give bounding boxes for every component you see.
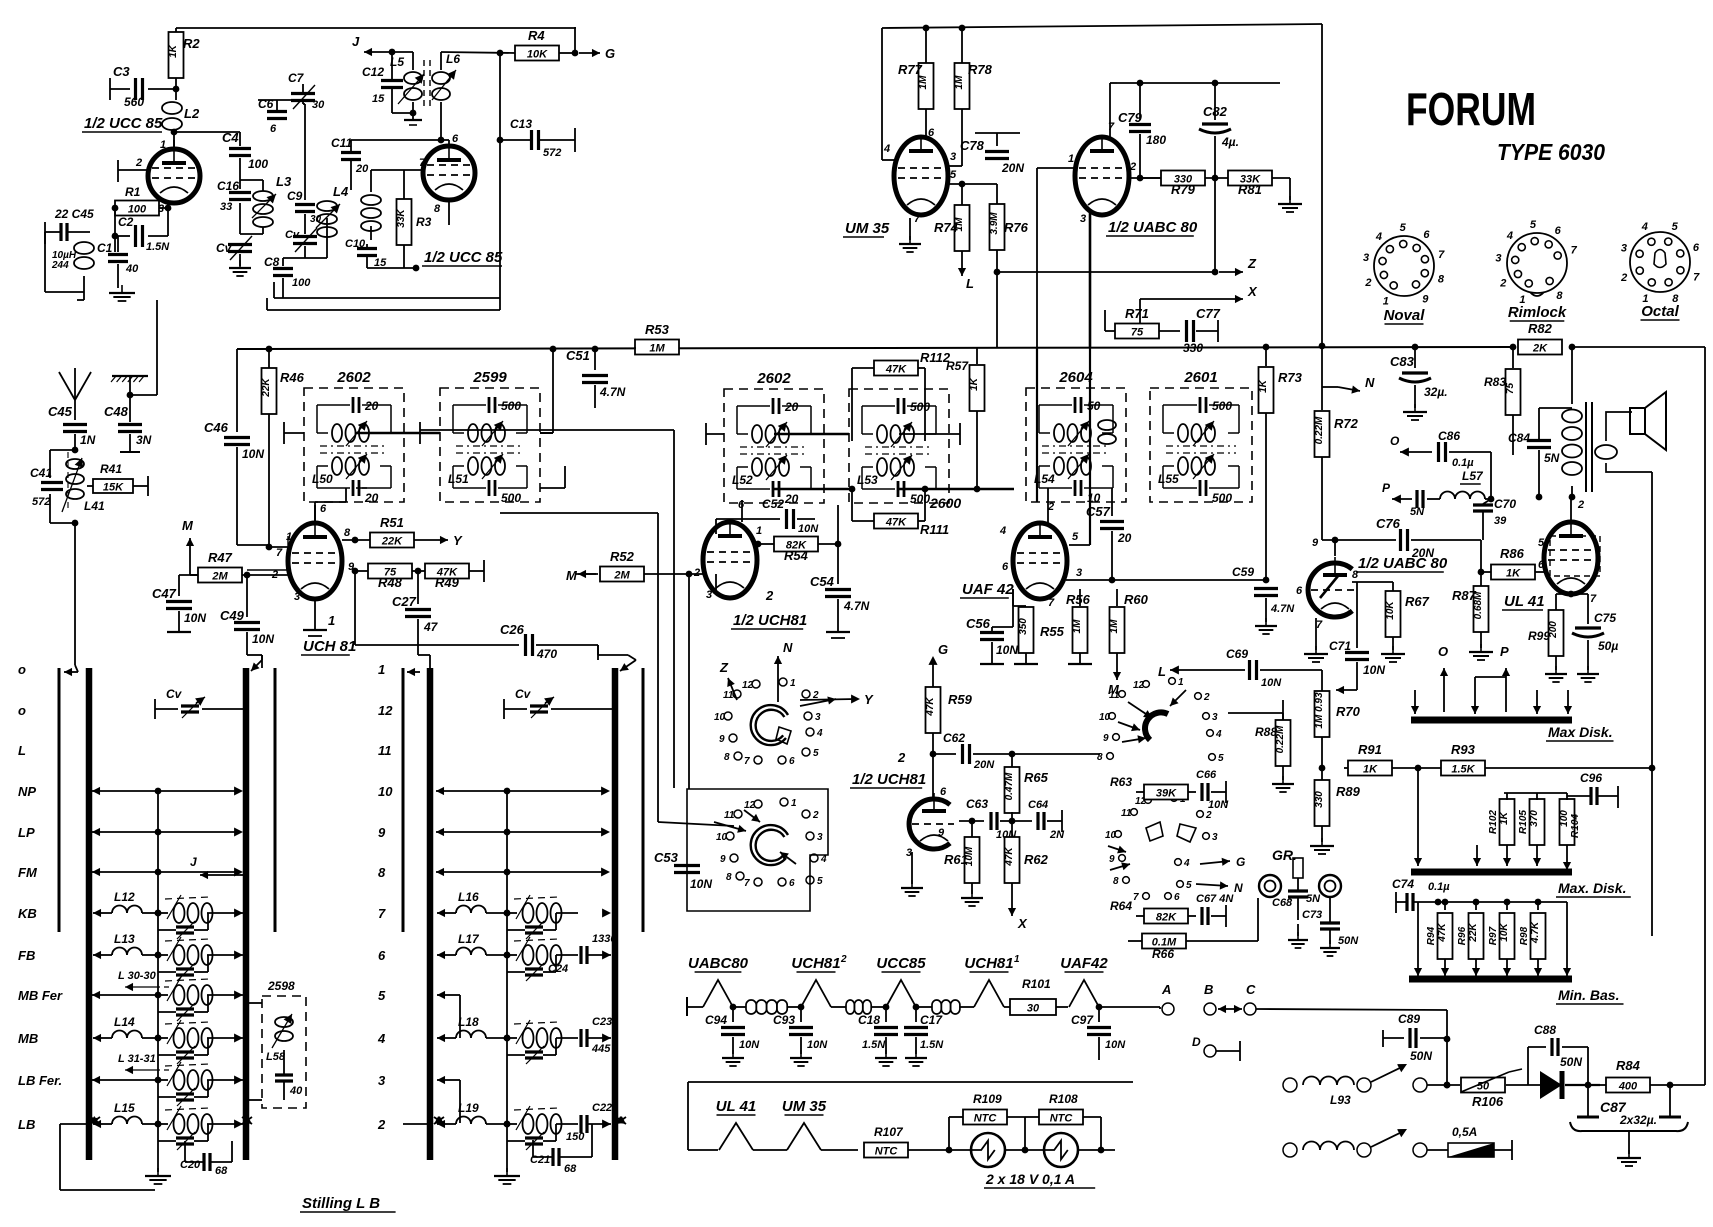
svg-text:UM 35: UM 35 [782,1098,827,1115]
triode UCH81 osc [909,793,954,849]
capacitor C68 [1272,878,1321,909]
svg-text:L: L [1158,664,1166,679]
svg-text:7: 7 [1571,245,1578,257]
capacitor C52 [716,497,819,535]
contact S3b [1413,1143,1427,1157]
svg-text:39: 39 [1494,515,1507,527]
trimmer C7 [288,71,325,111]
svg-text:22K: 22K [261,378,272,398]
row arrow head R y955 [437,951,448,959]
svg-text:R73: R73 [1278,370,1303,385]
resistor R102 [1488,793,1515,866]
arrow into L3 top [251,655,262,671]
svg-text:1K: 1K [168,44,179,58]
resistor R46 [261,349,305,547]
svg-text:Cv: Cv [515,687,532,701]
capacitor C8 [264,255,311,289]
svg-text:R70: R70 [1336,704,1361,719]
resistor R1 [115,185,159,216]
choke 1 [730,1000,801,1014]
svg-text:C17: C17 [920,1013,943,1027]
svg-text:1.5K: 1.5K [1451,764,1475,776]
resistor R41 [87,462,148,496]
wire 2602a bot to pin6 [315,488,346,523]
wire vert 1090 [1069,347,1090,545]
svg-text:10: 10 [1099,712,1111,723]
svg-text:2: 2 [897,750,906,765]
contact A [1161,982,1174,1015]
svg-text:2599: 2599 [472,369,507,386]
inductor L41 [62,452,105,513]
stub 2602a [284,422,304,444]
adj coil L17r [507,937,611,965]
node R82 right [1569,344,1576,351]
wire chain1 end [1096,1004,1160,1011]
resistor R81 [1205,171,1290,198]
ground UCH81 k [303,599,327,636]
svg-text:50N: 50N [1560,1055,1582,1069]
arrow md2 mid [1473,845,1481,866]
resistor R4 [515,28,559,61]
svg-text:500: 500 [501,399,521,413]
svg-text:P: P [1382,481,1391,495]
switch bar thick R3 [612,668,619,1160]
svg-text:10N: 10N [996,643,1018,657]
resistor R76 [989,184,1029,272]
svg-text:2: 2 [1364,277,1371,289]
resistor R89 [1310,768,1361,854]
wire C11 [351,137,444,190]
svg-text:3: 3 [294,591,300,603]
bank row number 9 [378,825,386,840]
svg-text:1/2 UABC 80: 1/2 UABC 80 [1358,555,1448,572]
bank row number 1 [378,662,385,677]
svg-text:L: L [18,743,26,758]
capacitor C75 [1556,591,1618,682]
row arrow head R y1038 [437,1034,448,1042]
resistor R82 [1518,321,1562,355]
svg-text:UABC80: UABC80 [688,955,749,972]
wire can-pin6 [314,505,316,523]
svg-text:2601: 2601 [1183,369,1217,386]
svg-text:C24: C24 [548,963,568,975]
pin5 UAF42 [1072,531,1079,543]
wire lamps [1005,1147,1044,1154]
svg-text:C83: C83 [1390,354,1415,369]
wire chain2 start [688,1149,718,1151]
svg-text:572: 572 [32,496,50,508]
svg-text:500: 500 [1212,399,1232,413]
wire R2-L2 [175,78,177,100]
svg-text:7: 7 [914,213,921,225]
resistor R98 [1519,899,1546,976]
mains plug L93 a [1283,1078,1297,1092]
svg-text:UL 41: UL 41 [716,1098,757,1115]
svg-text:6: 6 [1538,559,1545,571]
svg-text:2604: 2604 [1058,369,1093,386]
svg-text:1/2 UCC 85: 1/2 UCC 85 [84,115,163,132]
resistor R112 [852,350,951,441]
bank row number 7 [378,906,386,921]
svg-text:R74: R74 [934,220,959,235]
svg-text:7: 7 [378,906,386,921]
wire C48-up [130,300,157,395]
svg-text:3N: 3N [136,433,152,447]
resistor R53 [635,322,679,355]
row arrow head L y955 [93,951,104,959]
node R2/C3 [173,86,180,93]
label GR [1272,847,1297,863]
svg-text:20: 20 [784,400,799,414]
svg-text:4.7K: 4.7K [1530,921,1541,944]
chassis C48 [111,376,148,398]
svg-text:R57: R57 [946,359,969,373]
svg-text:R72: R72 [1334,416,1359,431]
svg-text:1/2 UCH81: 1/2 UCH81 [733,612,807,629]
adj coil L16r [507,895,611,923]
wire 2600 out [899,423,960,445]
svg-text:7: 7 [1048,597,1055,609]
label 2 (U2) [765,588,774,603]
svg-text:Y: Y [864,692,874,707]
tank bottom [72,520,79,527]
band label FB [18,948,35,963]
capacitor C67 [1188,893,1234,927]
svg-text:C11: C11 [331,136,352,150]
svg-text:R104: R104 [1570,814,1581,838]
bus Max Disk 1 [1411,717,1572,724]
wires C9 cluster [283,104,327,290]
svg-text:R89: R89 [1336,784,1361,799]
svg-text:5: 5 [1400,222,1407,234]
svg-text:11: 11 [723,690,734,701]
capacitor C84 [1508,408,1560,497]
svg-text:C79: C79 [1118,110,1143,125]
svg-text:10N: 10N [1105,1039,1126,1051]
svg-text:R59: R59 [948,692,973,707]
pin6 UL41 [1538,559,1545,571]
row arrow head L y1038 [93,1034,104,1042]
pin9 UCH81 [348,561,355,573]
svg-text:9: 9 [378,825,386,840]
svg-text:C23: C23 [592,1016,612,1028]
svg-text:3: 3 [815,712,821,723]
svg-text:R53: R53 [645,322,670,337]
pin 3 [158,203,164,215]
wire vert 1322 [1319,24,1326,349]
svg-text:L55: L55 [1158,472,1179,486]
svg-text:R52: R52 [610,549,635,564]
svg-text:R1: R1 [125,185,141,199]
wire R81 gnd [1289,178,1291,200]
svg-text:L53: L53 [857,473,878,487]
svg-text:8: 8 [724,752,730,763]
dashed box 2598 [262,979,306,1108]
capacitor C16 [217,179,251,213]
svg-text:1: 1 [756,525,762,537]
svg-text:50N: 50N [1410,1049,1432,1063]
wire L4b-C10 [367,226,419,271]
resistor R67 [1352,582,1430,662]
resistor R96 [1457,899,1484,976]
pin7 UCH81 [276,547,283,559]
svg-text:4: 4 [999,525,1006,537]
svg-text:47K: 47K [1437,923,1448,943]
row arrow head R y1124 [437,1120,448,1128]
node b [550,346,557,353]
svg-text:R91: R91 [1358,742,1382,757]
svg-text:50µ: 50µ [1598,639,1618,653]
svg-text:Octal: Octal [1641,303,1679,320]
svg-text:FM: FM [18,865,38,880]
svg-text:X: X [1017,916,1028,931]
arrow M left [566,568,598,583]
svg-text:0.1µ: 0.1µ [1452,457,1474,469]
svg-text:9: 9 [1422,294,1429,306]
output transformer prim [1562,347,1582,500]
svg-text:C20: C20 [180,1159,201,1171]
resistor R70 [1314,670,1361,771]
svg-text:L93: L93 [1330,1093,1351,1107]
wire C1 gnd [117,264,119,288]
svg-text:L52: L52 [732,473,753,487]
arrow S2 out [780,852,796,864]
svg-text:C59: C59 [1232,565,1254,579]
wire 2602b-pin6 [741,500,743,512]
pin1 U2 [756,525,762,537]
svg-text:82K: 82K [1156,912,1177,924]
arrow Y rot1b [800,692,874,707]
node R1 left [112,205,119,240]
svg-text:150: 150 [566,1131,585,1143]
svg-text:6: 6 [1296,585,1303,597]
svg-text:R55: R55 [1040,624,1065,639]
svg-text:5: 5 [1530,219,1537,231]
svg-text:C68: C68 [1272,897,1293,909]
svg-text:10N: 10N [252,632,274,646]
svg-text:C94: C94 [705,1013,727,1027]
svg-text:1K: 1K [1363,764,1378,776]
svg-text:8: 8 [378,865,386,880]
heater UAF42 [1060,955,1108,1007]
resistor R94 [1426,899,1453,976]
svg-text:10N: 10N [1261,677,1282,689]
adj coil L14r [158,1020,243,1048]
capacitor C62 [933,731,1015,771]
svg-text:C71: C71 [1329,639,1351,653]
ground bank L [145,1168,171,1184]
wire C26 rail [355,602,598,661]
pin6 U2 [738,499,745,522]
wire pin7 up [1110,83,1117,138]
svg-text:C84: C84 [1508,431,1530,445]
svg-text:1: 1 [160,139,166,151]
capacitor C96 [1567,771,1618,808]
svg-text:UCH 81: UCH 81 [303,638,356,655]
socket Octal [1620,221,1700,320]
contact D [1192,1035,1240,1061]
pin9 (UABC80b) [1312,537,1335,556]
svg-text:2: 2 [765,588,774,603]
arrow L (R74) [958,251,974,291]
svg-text:R97: R97 [1488,926,1499,945]
resistor R2 [168,32,200,78]
inductor L18 [448,1015,510,1041]
svg-text:3: 3 [1076,567,1082,579]
svg-text:R61: R61 [944,852,968,867]
svg-text:R81: R81 [1238,182,1262,197]
band label MB Fer [18,988,63,1003]
svg-text:UL 41: UL 41 [1504,593,1545,610]
svg-text:N: N [783,640,793,655]
rotary switch S1 arc [751,705,788,745]
svg-text:R60: R60 [1124,592,1149,607]
svg-text:4: 4 [816,728,823,739]
node R78 top [959,25,966,32]
ground R81 [1278,196,1302,212]
resistor R101 [1004,977,1068,1015]
resistor R104 [1559,793,1581,870]
svg-text:R78: R78 [968,62,993,77]
svg-text:1K: 1K [969,377,980,391]
svg-text:C67 4N: C67 4N [1196,893,1234,905]
X arrows LB right [242,1116,252,1124]
capacitor C78 [960,133,1024,175]
svg-text:B: B [1204,982,1213,997]
wire C79 rail [1117,80,1280,87]
svg-text:R56: R56 [1066,592,1091,607]
svg-text:6: 6 [1423,229,1430,241]
wire ch2 mid [821,1149,858,1151]
svg-text:2: 2 [1203,692,1210,703]
svg-text:68: 68 [215,1165,228,1177]
coil L94 [1303,1142,1354,1151]
arrow P up2 [1500,644,1510,712]
capacitor C47 [152,575,206,632]
wire R bank bottom [0,0,1,1]
svg-text:22K: 22K [381,536,403,548]
svg-text:C27: C27 [392,594,417,609]
svg-text:1N: 1N [80,433,96,447]
svg-text:2K: 2K [1532,343,1548,355]
tank bracket C41 [30,450,75,523]
svg-text:1M 0.93: 1M 0.93 [1314,692,1325,729]
svg-text:R71: R71 [1125,306,1149,321]
svg-text:C53: C53 [654,850,679,865]
pin6 UCH81 [315,503,327,523]
row arrow head R y913 [437,909,448,917]
wire R106-diode [1506,1084,1540,1086]
label 1/2 UCH81 (osc) [850,771,926,788]
IF can 2602b [724,370,824,506]
trimmer L17r [504,952,556,981]
svg-text:6: 6 [928,127,935,139]
inductor L19 [448,1101,510,1127]
capacitor C18 [858,1007,898,1066]
row arrow R y832 [436,827,610,836]
bank row number 5 [378,988,386,1003]
svg-text:C93: C93 [773,1013,795,1027]
coil L57 [1432,469,1485,499]
svg-text:11: 11 [378,743,392,758]
wire L1-bank [77,292,84,300]
svg-text:N: N [1365,375,1375,390]
svg-text:Stilling L B: Stilling L B [302,1195,380,1212]
inductor L12 [104,890,161,916]
rotary1 wedge [776,727,791,744]
svg-text:o: o [18,662,26,677]
svg-text:20: 20 [784,492,799,506]
svg-text:R54: R54 [784,548,809,563]
svg-text:R82: R82 [1528,321,1553,336]
trimmer L12 [155,910,208,939]
svg-text:C51: C51 [566,348,590,363]
svg-text:C74: C74 [1392,877,1414,891]
svg-text:G: G [938,642,948,657]
svg-text:2: 2 [1577,499,1584,511]
wire R52 row [575,573,596,575]
screen box UL41 [1550,536,1600,576]
wire R88 top [1228,713,1283,720]
adj coil L18r [507,1020,611,1048]
pin8 (UABC80b) [1352,569,1359,581]
band label LB Fer. [18,1073,62,1088]
band label LP [18,825,35,840]
capacitor C22 [566,1102,612,1143]
svg-text:L17: L17 [458,932,480,946]
switch center line L [157,791,159,1172]
svg-text:2 x 18 V 0,1 A: 2 x 18 V 0,1 A [985,1171,1075,1187]
coil L4b [361,195,381,231]
pin 5 [948,169,997,187]
trimmer Cv2 [285,228,317,252]
svg-text:7: 7 [419,157,426,169]
svg-text:L41: L41 [84,499,105,513]
svg-text:2598: 2598 [267,979,295,993]
svg-text:15: 15 [372,93,385,105]
ground C68 [1288,924,1308,948]
svg-text:5: 5 [378,988,386,1003]
title TYPE 6030 [1497,139,1605,165]
svg-text:5: 5 [1538,537,1545,549]
coil L7 [0,0,1,1]
heater UM35 [753,1098,827,1150]
resistor R48 [352,564,412,591]
svg-text:R87: R87 [1452,588,1477,603]
arrow md1 a [1411,690,1419,714]
svg-text:2: 2 [1620,272,1627,284]
arrow N cluster [1196,881,1243,895]
svg-text:C96: C96 [1580,771,1602,785]
capacitor C54 [810,544,870,638]
svg-text:UM 35: UM 35 [845,220,890,237]
svg-text:R96: R96 [1457,926,1468,945]
diode slash UABC80b [1320,576,1338,598]
resistor R72 [1314,347,1359,540]
svg-text:R83: R83 [1484,375,1506,389]
capacitor C89 [1383,1012,1447,1063]
wire R54 right [837,505,839,544]
capacitor C2 [115,208,170,253]
svg-text:UCH81: UCH81 [964,955,1013,972]
svg-text:R105: R105 [1518,810,1529,834]
svg-text:7: 7 [1590,593,1597,605]
svg-text:C41: C41 [30,466,52,480]
svg-text:1.5N: 1.5N [920,1039,944,1051]
capacitor C53 [654,850,712,891]
svg-text:4: 4 [883,143,890,155]
svg-text:20: 20 [1117,531,1132,545]
